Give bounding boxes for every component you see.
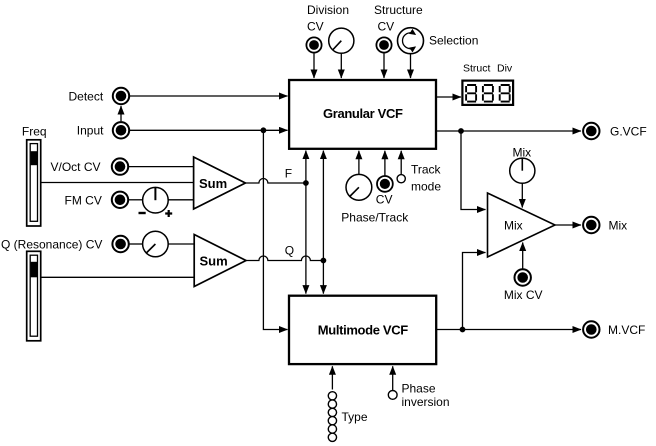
label Q [285,244,294,258]
svg-text:CV: CV [378,20,395,34]
jack V/Oct CV [112,158,128,174]
svg-text:G.VCF: G.VCF [610,125,647,139]
jack Structure CV [376,37,391,52]
jack Detect [113,88,129,104]
block Multimode VCF [289,296,436,364]
knob Division [329,28,354,53]
node junction on G.VCF line [458,128,464,134]
wire Division knob to Granular VCF [340,54,342,78]
wire Phase/Track knob to Granular VCF [358,151,360,174]
wire Track mode to Granular VCF [400,151,402,174]
svg-text:M.VCF: M.VCF [608,323,645,337]
svg-text:Detect: Detect [69,90,104,104]
digit 8 third [500,85,510,102]
wire junction to Mix lower input [463,253,486,330]
wire junction to Mix upper input [461,131,486,210]
wire Selection encoder to Granular VCF [410,54,412,78]
svg-text:Sum: Sum [199,176,227,191]
svg-text:Division: Division [307,3,349,17]
svg-text:Sum: Sum [200,254,228,269]
svg-text:FM CV: FM CV [65,193,102,207]
wire Detect to Granular VCF [130,95,288,97]
svg-text:Phase: Phase [402,382,436,396]
display Struct Div seven-segment [462,81,513,105]
button Track mode [397,175,405,183]
jack FM CV [112,192,128,208]
wire Phase inversion to Multimode VCF [392,366,394,390]
wire Input to Granular VCF [130,129,288,131]
svg-text:Q: Q [285,244,294,258]
svg-text:mode: mode [411,180,441,194]
svg-text:Mix: Mix [609,219,628,233]
wire Granular VCF to G.VCF jack [437,130,581,132]
jack G.VCF [583,123,599,139]
jack Division CV [306,37,321,52]
svg-text:V/Oct CV: V/Oct CV [51,160,101,174]
svg-text:Div: Div [497,63,513,75]
jack Mix CV [515,269,531,285]
digit 8 second [483,85,493,102]
jack Input [113,122,129,138]
svg-text:Mix: Mix [504,219,523,233]
digit 8 first [466,85,476,102]
knob Mix [510,158,535,183]
svg-text:Multimode VCF: Multimode VCF [318,323,408,338]
slider Q [27,251,41,340]
label Input [77,124,104,138]
wire Mix CV jack to Mix amp [522,243,524,269]
svg-text:Granular VCF: Granular VCF [323,106,403,121]
wire FM CV jack to FM knob [129,199,143,201]
label Detect [69,90,104,104]
jack Mix [583,217,599,233]
svg-text:Input: Input [77,124,104,138]
svg-text:Freq: Freq [22,125,47,139]
label Structure CV [374,3,423,34]
wire Input jack to Detect jack [120,106,122,121]
label Division CV [307,3,349,34]
label Selection [429,34,478,48]
jack M.VCF [583,321,599,337]
label Mix CV [504,288,543,302]
jack Q CV [112,236,128,252]
svg-text:F: F [285,167,292,181]
jack Phase/Track CV [377,176,393,192]
wire Q slider to Sum2 [41,276,194,278]
knob Q [143,231,169,257]
svg-text:Selection: Selection [429,34,478,48]
amp Sum1 [194,157,246,209]
knob Phase/Track [346,174,372,200]
svg-text:CV: CV [376,193,393,207]
wire Mix amp to Mix jack [555,224,581,226]
node junction on M.VCF line [460,327,466,333]
wire Sum2 output to node Q with hops [246,256,323,261]
svg-text:CV: CV [307,20,324,34]
label Phase inversion [402,382,450,410]
label Mix output [609,219,628,233]
wire F bus between VCF blocks [305,151,307,294]
node F junction [303,180,309,186]
label Mix knob [513,146,532,160]
node Q junction [321,258,327,264]
block Granular VCF [289,80,436,149]
wire Sum1 output to node F with hop [245,179,306,184]
svg-text:Mix CV: Mix CV [504,288,543,302]
label Track mode [411,163,442,194]
buttons Type chain [328,392,336,442]
svg-text:Q (Resonance) CV: Q (Resonance) CV [1,238,102,252]
wire V/Oct CV to Sum1 [129,166,194,168]
wire Type buttons to Multimode VCF [331,366,333,389]
wire Granular VCF to display [437,96,461,98]
label G.VCF [610,125,647,139]
label F [285,167,292,181]
encoder Selection [398,28,424,54]
wire Input node to Multimode VCF [263,130,287,329]
label Type [342,410,368,424]
wire Q bus between VCF blocks [322,151,324,294]
wire Mix knob to Mix amp [521,184,523,208]
wire Multimode VCF to M.VCF jack [437,329,581,331]
amp Mix [488,193,556,257]
wire Q knob to Sum2 [168,243,193,245]
label M.VCF [608,323,645,337]
wire Division CV jack to Granular VCF [313,54,315,79]
knob FM attenuverter [139,187,173,217]
svg-text:Phase/Track: Phase/Track [341,211,409,225]
wire Phase/Track CV jack to Granular VCF [384,151,386,176]
label V/Oct CV [51,160,101,174]
svg-text:Struct: Struct [463,63,491,75]
wire Freq slider to Sum1 [41,182,193,184]
slider Freq [27,140,41,226]
wire Structure CV jack to Granular VCF [383,54,385,79]
node junction on Input line [261,127,267,133]
label FM CV [65,193,102,207]
button Phase inversion [388,391,397,400]
svg-text:Track: Track [411,163,442,177]
wire FM knob to Sum1 [168,199,193,201]
svg-text:Type: Type [342,410,368,424]
wire Q CV jack to Q knob [129,243,142,245]
label Freq [22,125,47,139]
label CV Phase/Track [376,193,393,207]
label Phase/Track [341,211,409,225]
label Struct Div [463,63,513,75]
svg-text:Structure: Structure [374,3,423,17]
amp Sum2 [194,235,246,287]
svg-text:inversion: inversion [402,395,450,409]
label Q (Resonance) CV [1,238,102,252]
